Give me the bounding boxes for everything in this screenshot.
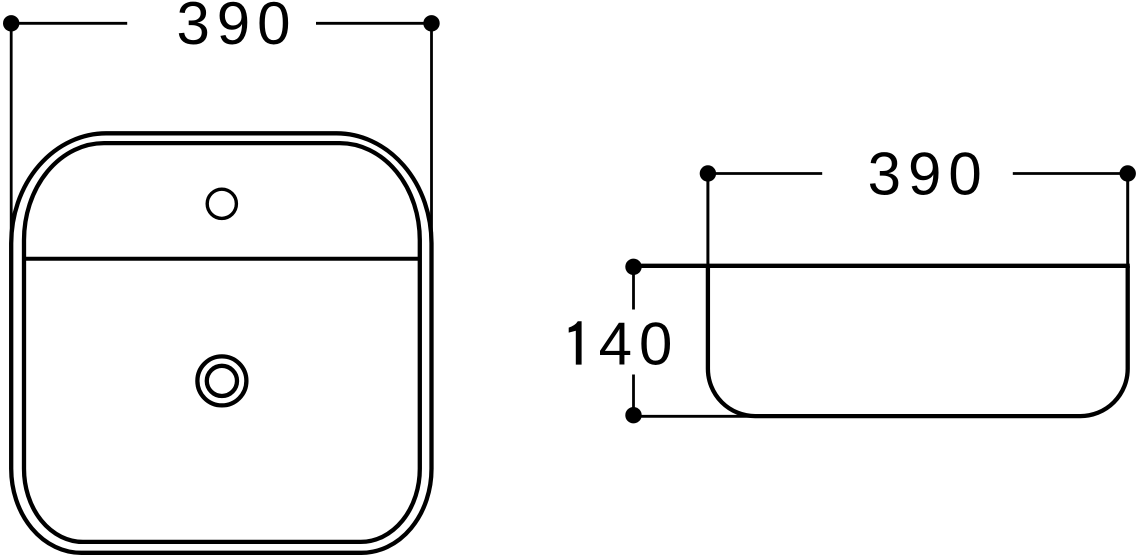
dimension 390 top: left extension line	[10, 23, 13, 245]
dimension 390 side: right line segment	[1013, 172, 1128, 175]
dimension 140: label text digit 1	[569, 321, 582, 364]
drain inner circle	[207, 366, 237, 396]
basin side body outline	[708, 266, 1128, 416]
dimension 390 top: left dot	[3, 15, 19, 31]
dimension 390 side: right extension line	[1126, 174, 1129, 267]
dimension 140: upper line segment	[632, 267, 635, 310]
dimension 140: bottom extension line	[634, 415, 758, 418]
dimension 140: bottom dot	[625, 407, 641, 423]
drain outer circle	[197, 356, 246, 405]
dimension 140: lower line segment	[632, 375, 635, 416]
dimension 390 side: right dot	[1120, 165, 1136, 181]
basin outer outline	[11, 133, 431, 553]
dimension 140: top dot	[625, 259, 641, 275]
basin deck divider line	[24, 257, 420, 261]
basin inner outline	[24, 143, 420, 542]
dimension 390 top: right line segment	[316, 22, 432, 25]
dimension 390 top: left line segment	[11, 22, 127, 25]
faucet hole	[207, 189, 236, 218]
svg-text:390: 390	[868, 141, 989, 208]
svg-text:40: 40	[599, 310, 680, 377]
dimension 390 side: left extension line	[706, 174, 709, 267]
dimension 390 side: left dot	[700, 165, 716, 181]
basin side top rim line	[634, 264, 1130, 268]
dimension 390 side: left line segment	[708, 172, 822, 175]
svg-text:390: 390	[176, 0, 297, 57]
dimension 390 top: right extension line	[430, 23, 433, 245]
dimension 390 top: right dot	[423, 15, 439, 31]
